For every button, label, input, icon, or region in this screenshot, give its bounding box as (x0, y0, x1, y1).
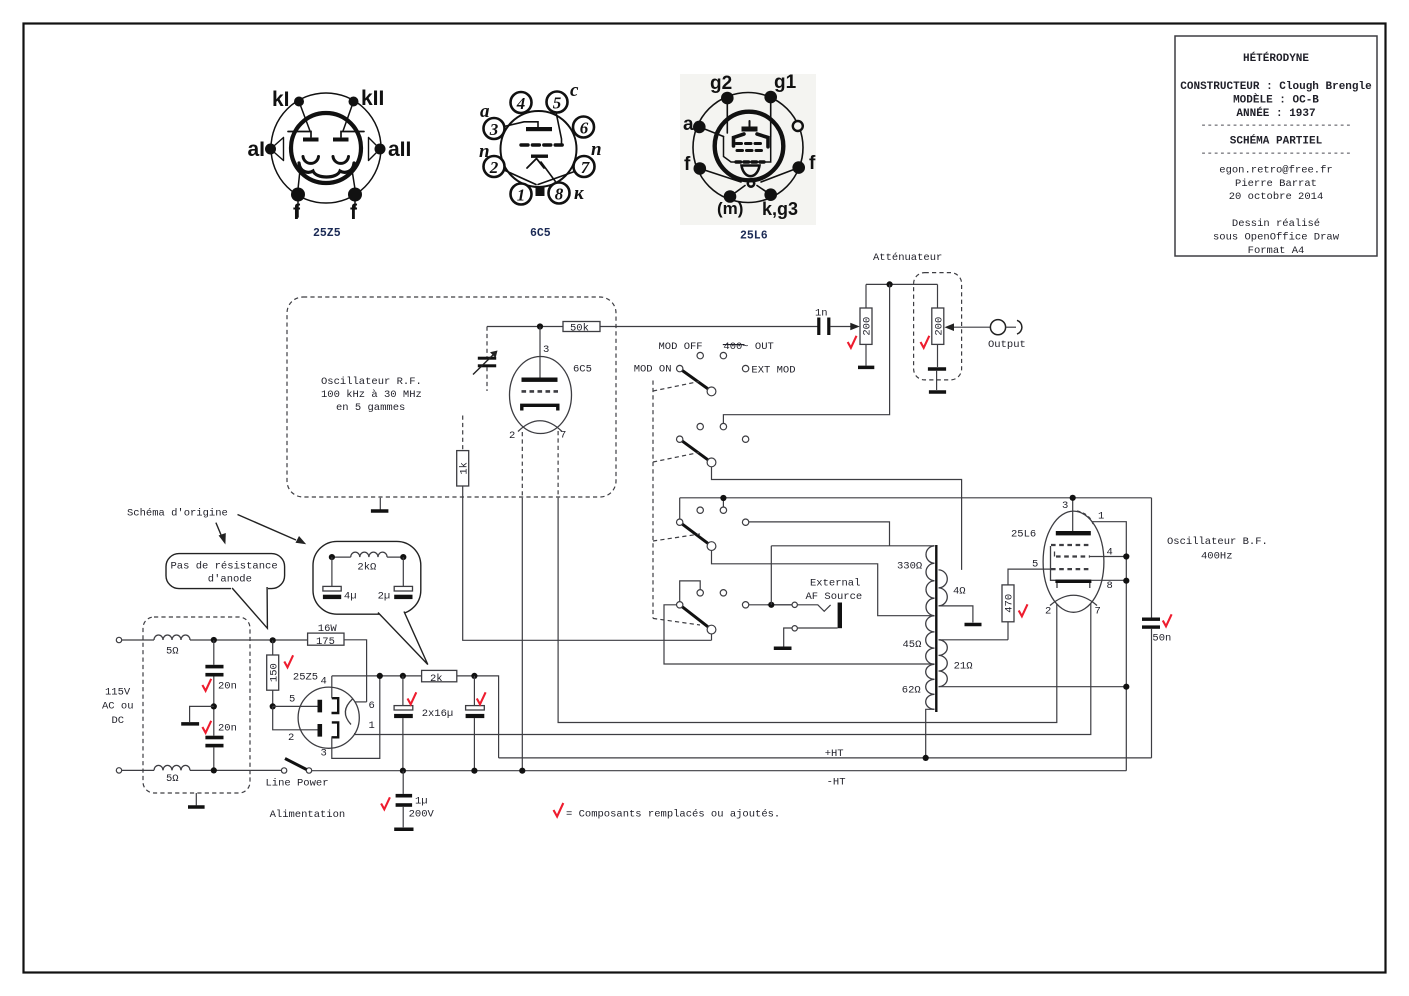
svg-text:1n: 1n (815, 308, 828, 320)
svg-text:2µ: 2µ (378, 591, 391, 603)
25Z5 pin4 wire (331, 676, 333, 698)
25L6 beam plates (734, 134, 745, 146)
svg-text:4Ω: 4Ω (953, 586, 966, 598)
svg-text:+HT: +HT (825, 748, 844, 760)
inductor 5ohm bottom (154, 765, 190, 770)
inductor 5ohm top (154, 635, 190, 640)
Output connector (990, 320, 1005, 335)
25Z5 pin f left (291, 188, 305, 202)
svg-text:3: 3 (321, 748, 327, 760)
25L6 pin2 wire (heater) (558, 604, 1057, 723)
svg-text:(m): (m) (717, 199, 743, 218)
svg-text:4µ: 4µ (344, 591, 357, 603)
Atténuateur dashed box (914, 273, 962, 380)
svg-text:50k: 50k (570, 323, 589, 335)
4ohm bottom to ground (939, 606, 973, 623)
variable capacitor C-var (486, 327, 488, 357)
resistor 470 (1002, 585, 1014, 622)
resistor 1k (462, 416, 464, 451)
jack sleeve (838, 603, 842, 629)
25L6 socket labels (683, 72, 816, 219)
tube socket diagram 25Z5 (265, 93, 386, 217)
wire 1n to pot 200 with arrow (830, 326, 852, 328)
svg-text:50n: 50n (1152, 633, 1171, 645)
svg-text:Atténuateur: Atténuateur (873, 252, 942, 264)
25Z5 anode brackets (332, 698, 339, 713)
capacitor 50n (1151, 498, 1153, 618)
bubble: original RC network (313, 541, 428, 664)
capacitor 1u 200V (402, 771, 404, 794)
25Z5 internal leads (299, 102, 310, 132)
25L6 grid g1 dashed + pin4 wire (1056, 555, 1090, 557)
resistor 150 (270, 637, 276, 643)
wires to 25Z5 cathodes (273, 705, 318, 707)
6C5 anode lead (504, 122, 538, 127)
25L6 beam box outline (724, 137, 771, 163)
primary winding 45ohm (926, 616, 935, 665)
25Z5 socket labels (248, 87, 412, 224)
svg-text:3: 3 (543, 344, 549, 356)
svg-text:4: 4 (516, 94, 526, 113)
svg-text:g2: g2 (710, 73, 732, 94)
potentiometer 200 (left) (860, 308, 872, 344)
S2 rotor output wire to transformer secondary (712, 467, 962, 570)
switch deck 4 (664, 581, 935, 664)
secondary winding 21ohm (939, 640, 948, 687)
svg-text:MOD OFF: MOD OFF (659, 341, 703, 353)
25L6 beam outline (1051, 546, 1092, 580)
svg-text:25Z5: 25Z5 (313, 227, 341, 240)
25L6 anode (1056, 531, 1091, 535)
svg-text:------------------------: ------------------------ (1200, 120, 1351, 132)
25L6 pin7 wire (heater) (355, 604, 1091, 735)
svg-text:2x16µ: 2x16µ (422, 708, 454, 720)
svg-text:------------------------: ------------------------ (1200, 148, 1351, 160)
25Z5 heater (299, 163, 354, 177)
svg-text:MOD ON: MOD ON (634, 364, 672, 376)
svg-text:d'anode: d'anode (208, 574, 252, 586)
core (935, 545, 937, 712)
svg-text:2kΩ: 2kΩ (357, 562, 376, 574)
svg-text:Line Power: Line Power (266, 778, 329, 790)
svg-text:115V: 115V (105, 687, 131, 699)
svg-text:CONSTRUCTEUR : Clough Brengle: CONSTRUCTEUR : Clough Brengle (1180, 81, 1372, 93)
svg-text:kII: kII (361, 87, 384, 110)
6C5 heater (504, 170, 576, 185)
S4 EXT contact wire to jack (746, 604, 795, 606)
25Z5 aI lead trapezoid (271, 138, 284, 161)
switch deck 3 (677, 495, 1152, 616)
svg-text:2: 2 (509, 430, 515, 442)
wire transformer top to AF jack junction (770, 546, 772, 605)
primary winding 62ohm (926, 664, 935, 709)
svg-text:g1: g1 (774, 72, 797, 93)
25Z5 pin3 wire (332, 676, 380, 759)
svg-text:= Composants remplacés ou ajou: = Composants remplacés ou ajoutés. (566, 809, 780, 821)
primary winding 330ohm (926, 546, 935, 616)
svg-text:Pas de résistance: Pas de résistance (171, 561, 278, 573)
transformer T1 (897, 545, 1126, 758)
switch deck 2 (677, 423, 962, 570)
tube 25Z5 (schematic) (298, 687, 359, 748)
21ohm top tap to 470 (939, 639, 1009, 641)
-HT rail (309, 770, 1126, 772)
input terminal bottom (116, 768, 121, 773)
svg-text:100 kHz à 30 MHz: 100 kHz à 30 MHz (321, 389, 422, 401)
svg-text:Oscillateur R.F.: Oscillateur R.F. (321, 376, 422, 388)
svg-text:EXT MOD: EXT MOD (751, 365, 795, 377)
svg-text:470: 470 (1004, 594, 1016, 613)
svg-text:25L6: 25L6 (1011, 529, 1036, 541)
svg-text:k,g3: k,g3 (762, 199, 798, 219)
svg-text:f: f (684, 154, 691, 175)
bubble: Pas de résistance d'anode (166, 554, 285, 629)
resistor 2k (422, 670, 457, 681)
arrow to bubble 2 (238, 515, 297, 541)
25Z5 pin kI (294, 97, 304, 107)
25Z5 cathode bars (317, 700, 322, 737)
output arrow into pot2 (952, 326, 990, 328)
svg-text:1µ: 1µ (415, 796, 428, 808)
wire 50k to 1n (600, 326, 818, 328)
svg-text:kI: kI (272, 88, 290, 111)
svg-text:en 5 gammes: en 5 gammes (336, 402, 405, 414)
pot2 ground (double) (937, 344, 939, 367)
svg-text:Alimentation: Alimentation (270, 809, 346, 821)
25Z5 aII lead trapezoid (369, 138, 381, 161)
inductor 2kohm (332, 556, 351, 558)
6C5 grid lead (556, 112, 562, 146)
capacitor 4u (331, 557, 333, 586)
25L6 grid g2 dashed (1051, 544, 1091, 546)
svg-text:DC: DC (112, 715, 125, 727)
svg-text:aII: aII (388, 138, 411, 161)
svg-text:7: 7 (560, 430, 566, 442)
legend (554, 803, 564, 817)
6C5 keyway (536, 187, 545, 196)
title box (1175, 36, 1377, 257)
svg-text:4: 4 (321, 676, 327, 688)
arm S1 (680, 369, 712, 392)
svg-text:f: f (293, 201, 301, 224)
svg-text:MODÈLE : OC-B: MODÈLE : OC-B (1233, 93, 1319, 107)
6C5 pin7 wire (557, 431, 559, 498)
25L6 cathode (1055, 580, 1091, 583)
svg-text:egon.retro@free.fr: egon.retro@free.fr (1219, 165, 1332, 177)
svg-text:400Hz: 400Hz (1201, 551, 1233, 563)
6C5 anode (522, 378, 558, 382)
S4 rotor wire (711, 634, 713, 640)
25L6 grid dashed row 3 (pin5) (1051, 568, 1091, 570)
svg-text:HÉTÉRODYNE: HÉTÉRODYNE (1243, 51, 1309, 65)
svg-text:aI: aI (248, 138, 266, 161)
svg-text:ANNÉE : 1937: ANNÉE : 1937 (1236, 106, 1315, 120)
6C5 pin numbers (489, 94, 591, 205)
mid node + internal ground (211, 703, 217, 709)
svg-text:1: 1 (1098, 511, 1104, 523)
25L6 internal leads from pins (699, 97, 770, 136)
node atten (887, 281, 893, 287)
secondary winding 4ohm (939, 570, 948, 606)
ground below R.F. box (379, 498, 381, 510)
B+ rail from rectifier (332, 675, 422, 677)
svg-text:6C5: 6C5 (573, 364, 592, 376)
svg-text:-HT: -HT (827, 777, 846, 789)
svg-text:8: 8 (555, 185, 564, 204)
svg-text:6: 6 (369, 700, 375, 712)
arm S4 (680, 605, 712, 630)
25Z5 pin1 heater wire (354, 733, 356, 735)
jack sleeve to ground (784, 628, 838, 647)
svg-text:20n: 20n (218, 681, 237, 693)
arm S3 (680, 522, 712, 546)
capacitor 20n lower (205, 736, 223, 740)
svg-text:Pierre Barrat: Pierre Barrat (1235, 178, 1317, 190)
svg-text:200: 200 (862, 317, 874, 336)
25L6 grid dashes (736, 142, 763, 145)
+HT rail (499, 757, 1152, 759)
svg-text:AF Source: AF Source (806, 591, 863, 603)
svg-text:150: 150 (268, 663, 280, 682)
svg-text:Format A4: Format A4 (1248, 245, 1305, 257)
power input dashed box (143, 617, 250, 793)
S3 rotor wire to transformer tap (712, 551, 935, 616)
6C5 cathode bracket (522, 405, 558, 410)
svg-text:5: 5 (289, 694, 295, 706)
arrow to bubble 1 (216, 523, 222, 536)
tube socket diagram 6C5 (479, 80, 602, 205)
svg-text:1k: 1k (458, 462, 470, 475)
6C5 pin2 wire (521, 432, 523, 498)
svg-text:n: n (591, 139, 602, 160)
svg-text:25Z5: 25Z5 (293, 672, 318, 684)
node 20n top (211, 637, 217, 643)
filter cap 2x16u (1) (402, 676, 404, 706)
svg-text:21Ω: 21Ω (954, 661, 973, 673)
Oscillateur R.F. dashed box (287, 297, 616, 497)
svg-text:20n: 20n (218, 723, 237, 735)
arm S2 (680, 439, 712, 462)
primary bottom to +HT (926, 709, 935, 758)
svg-text:1: 1 (517, 186, 526, 205)
svg-text:200: 200 (933, 317, 945, 336)
jack tip wire (767, 605, 831, 612)
filter cap 2x16u (2) (473, 676, 475, 706)
capacitor 2u (402, 557, 404, 586)
svg-text:n: n (479, 141, 490, 162)
1k bottom wire to switch 4 rotor (463, 486, 712, 640)
svg-text:Oscillateur B.F.: Oscillateur B.F. (1167, 536, 1268, 548)
svg-text:2k: 2k (430, 673, 443, 685)
svg-text:c: c (570, 80, 579, 101)
svg-text:f: f (809, 153, 816, 174)
6C5 pin2 junction on -HT (519, 768, 525, 774)
6C5 cathode (531, 155, 548, 158)
svg-text:2: 2 (1045, 606, 1051, 618)
25Z5 pin aII (375, 144, 386, 155)
svg-text:20 octobre 2014: 20 octobre 2014 (1229, 191, 1324, 203)
svg-text:Dessin réalisé: Dessin réalisé (1232, 218, 1320, 230)
svg-text:3: 3 (489, 120, 499, 139)
25L6 pins (721, 92, 734, 105)
svg-text:SCHÉMA PARTIEL: SCHÉMA PARTIEL (1230, 134, 1323, 148)
svg-text:5Ω: 5Ω (166, 646, 179, 658)
S4 left contact ties (680, 581, 701, 605)
mechanical linkage (dashed) (652, 381, 654, 619)
junction pin8 row (1123, 684, 1129, 690)
pot1 ground (865, 344, 867, 365)
svg-text:a: a (683, 114, 694, 135)
svg-text:5: 5 (553, 94, 562, 113)
switch deck 1 (mode selector) (677, 352, 749, 395)
svg-text:2: 2 (489, 158, 499, 177)
25Z5 pin aI (265, 144, 276, 155)
25Z5 heater arc (345, 699, 352, 725)
svg-text:AC ou: AC ou (102, 701, 134, 713)
25L6 pin1 dashed internal (1077, 511, 1093, 524)
contacts S1 (697, 352, 703, 358)
25Z5 pin kII (349, 97, 359, 107)
6C5 anode plate (526, 127, 552, 131)
svg-text:Schéma d'origine: Schéma d'origine (127, 508, 228, 520)
25L6 heater arc (1050, 595, 1097, 605)
svg-text:a: a (480, 101, 490, 122)
svg-text:2: 2 (288, 732, 294, 744)
svg-text:Output: Output (988, 339, 1026, 351)
svg-text:6: 6 (580, 119, 589, 138)
6C5 pin3 wire (539, 327, 541, 378)
input terminal top (116, 637, 121, 642)
svg-text:3: 3 (1062, 500, 1068, 512)
25L6 pin3 wire (1072, 498, 1074, 531)
wire node down to switch2 contact (723, 284, 889, 426)
resistor 50k (563, 322, 600, 332)
6C5 heater arc (518, 421, 562, 432)
svg-text:1: 1 (369, 720, 375, 732)
25Z5 anode plates (303, 138, 319, 142)
capacitor 20n upper (213, 640, 215, 665)
tube 6C5 (schematic) (510, 357, 572, 434)
svg-text:к: к (574, 183, 585, 204)
potentiometer 200 (output) (932, 308, 944, 344)
tube 25L6 (schematic) (1043, 511, 1104, 612)
svg-text:330Ω: 330Ω (897, 561, 922, 573)
svg-text:5: 5 (1032, 559, 1038, 571)
svg-text:400~ OUT: 400~ OUT (723, 341, 773, 353)
25L6 top bar (749, 121, 751, 127)
svg-text:f: f (350, 201, 358, 224)
tube socket diagram 25L6 (680, 74, 816, 225)
svg-text:62Ω: 62Ω (902, 685, 921, 697)
svg-text:25L6: 25L6 (740, 230, 768, 243)
Line Power switch (281, 768, 286, 773)
svg-text:200V: 200V (409, 809, 435, 821)
6C5 pin circles (484, 92, 595, 205)
svg-text:8: 8 (1107, 580, 1113, 592)
svg-text:5Ω: 5Ω (166, 773, 179, 785)
25L6 bottom wings (700, 168, 799, 197)
svg-text:7: 7 (1095, 606, 1101, 618)
red checkmarks (284, 655, 293, 667)
21ohm bottom wire (939, 686, 1127, 688)
svg-text:6C5: 6C5 (530, 227, 551, 240)
6C5 grid (dashed) (522, 390, 559, 393)
svg-text:sous OpenOffice Draw: sous OpenOffice Draw (1213, 232, 1340, 244)
S3 right contact wire to transformer top (746, 522, 890, 546)
svg-text:175: 175 (316, 636, 335, 648)
ground below input box (195, 793, 197, 805)
node A (grid of 6C5) (537, 323, 543, 329)
wire node to 50k (487, 326, 563, 328)
25L6 heater bump (742, 166, 760, 177)
6C5 outside labels (479, 80, 602, 204)
long wire y=498 to 25L6 anode (680, 497, 1152, 499)
25Z5 pin f right (348, 188, 362, 202)
6C5 grid dashes (521, 143, 564, 146)
rotor S1 (707, 387, 716, 396)
25L6 pin1 wire (1092, 522, 1126, 771)
25Z5 cathode hooks (303, 157, 319, 164)
svg-text:45Ω: 45Ω (903, 639, 922, 651)
svg-text:External: External (810, 578, 860, 590)
